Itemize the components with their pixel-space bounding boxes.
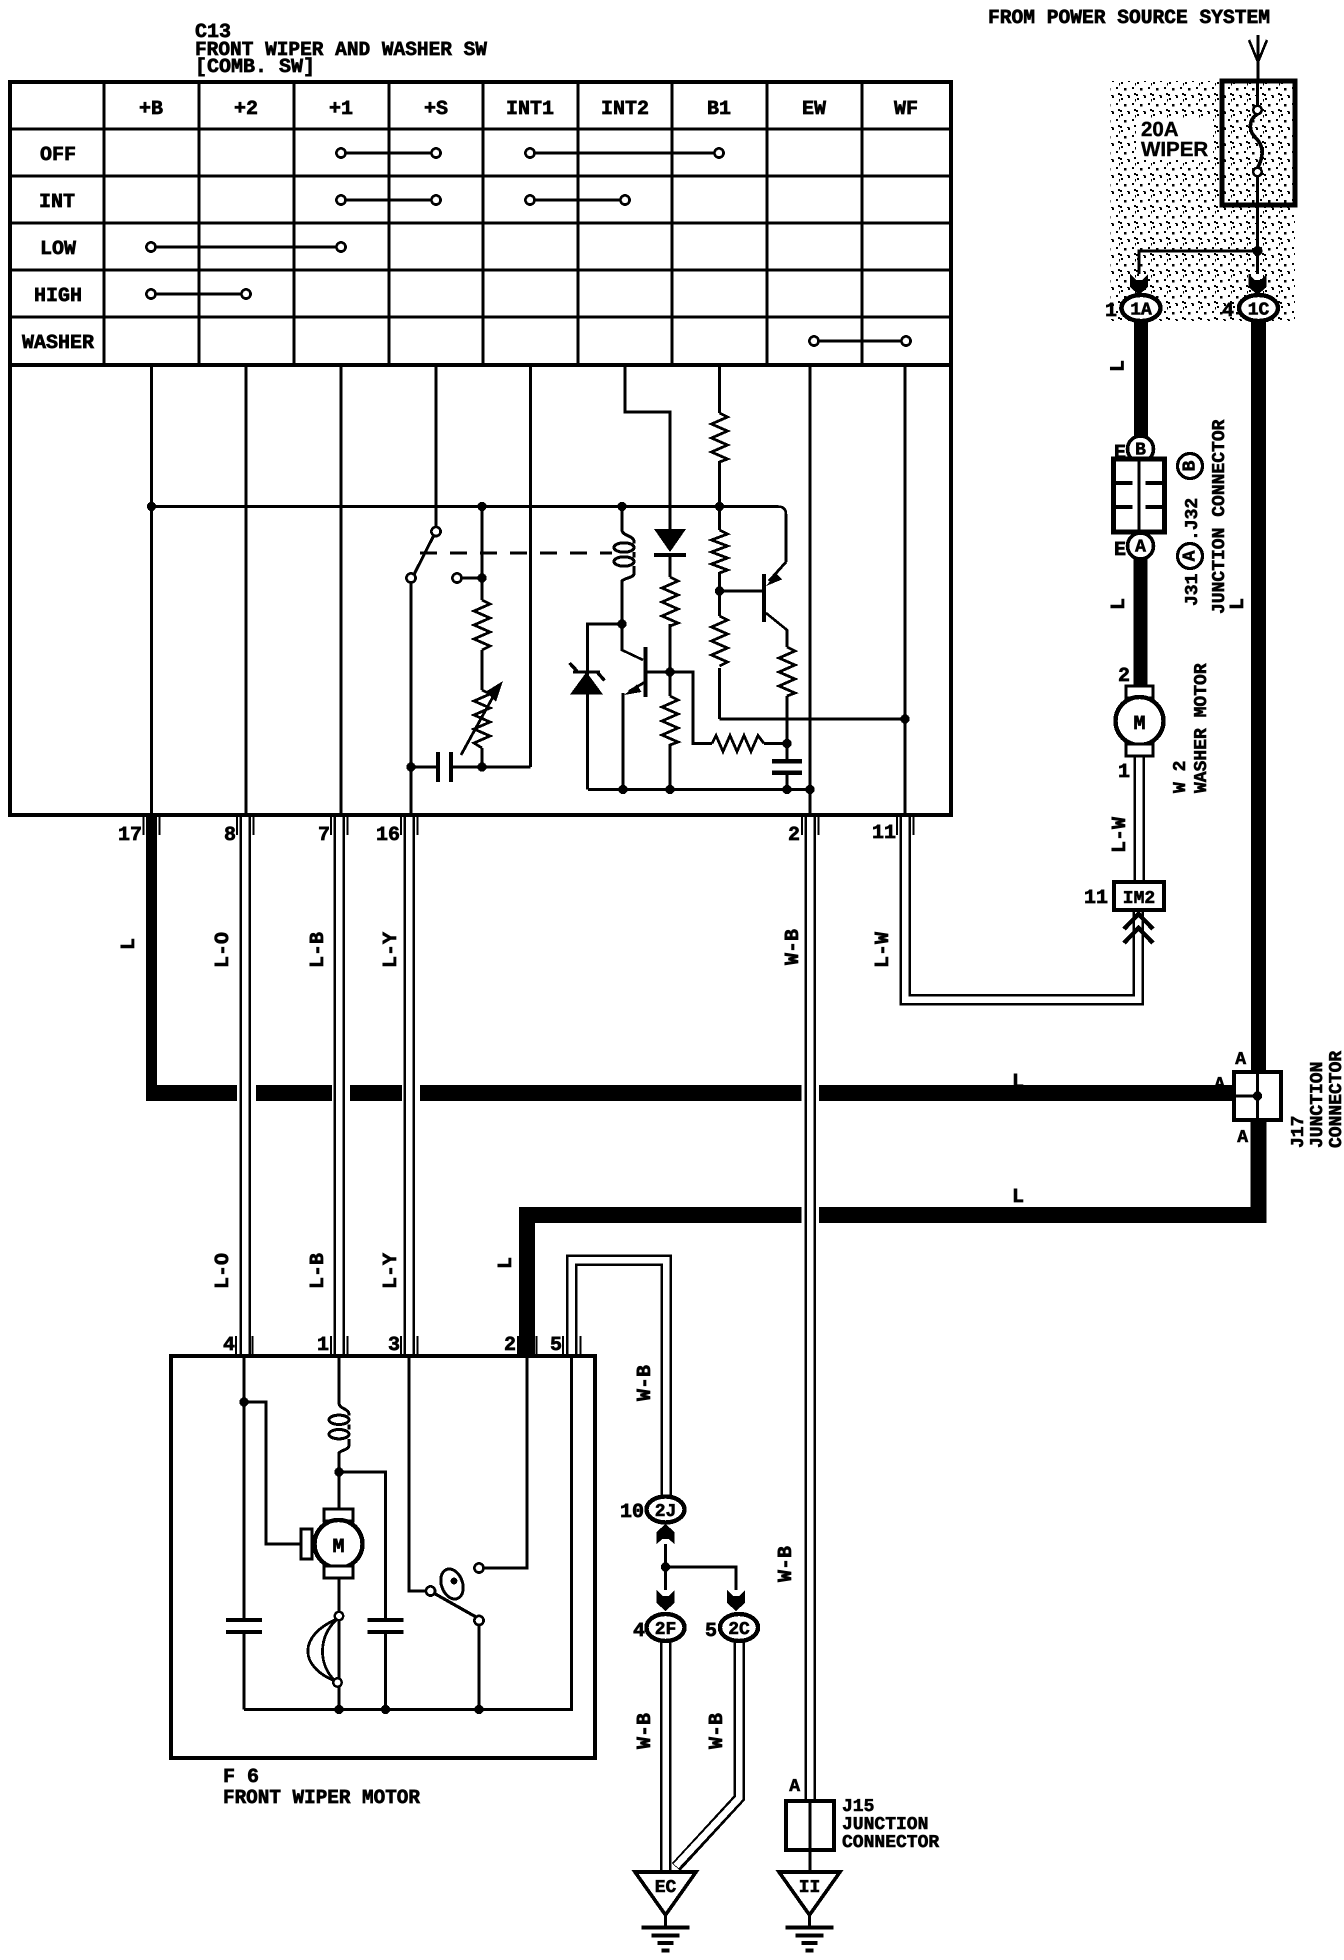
svg-text:EW: EW bbox=[802, 98, 826, 121]
junction connector J31 J32 box bbox=[1114, 459, 1165, 532]
connector pin stubs above motor bbox=[236, 1336, 581, 1356]
pin A labels of J17 bbox=[1214, 1050, 1248, 1148]
node below fuse bbox=[1253, 246, 1263, 256]
svg-text:L-Y: L-Y bbox=[380, 1253, 403, 1289]
svg-text:4: 4 bbox=[223, 1334, 235, 1357]
svg-text:FRONT WIPER MOTOR: FRONT WIPER MOTOR bbox=[223, 1787, 420, 1810]
node B timing bbox=[782, 739, 791, 748]
wire diode branch bbox=[669, 557, 672, 790]
switch contact OFF row +1 to +S bbox=[336, 148, 440, 157]
svg-text:A: A bbox=[1135, 538, 1146, 558]
svg-text:2C: 2C bbox=[728, 1620, 750, 1640]
svg-text:16: 16 bbox=[376, 824, 400, 847]
svg-text:A: A bbox=[1181, 550, 1201, 561]
node ground rail C2 bbox=[782, 785, 791, 794]
svg-text:WIPER: WIPER bbox=[1141, 138, 1208, 161]
node rail at resistor branch bbox=[477, 502, 486, 511]
wire fuse to connectors 1A 1C bbox=[1139, 247, 1258, 274]
connector EB bbox=[1128, 436, 1154, 462]
svg-text:7: 7 bbox=[318, 824, 330, 847]
node ground rail EW bbox=[805, 785, 814, 794]
node switch second contact bbox=[477, 573, 486, 582]
wire node to capacitor row bbox=[481, 507, 484, 768]
svg-text:+S: +S bbox=[424, 98, 448, 121]
ground EC bbox=[635, 1872, 696, 1915]
svg-text:+1: +1 bbox=[329, 98, 353, 121]
switch C13 table frame bbox=[10, 82, 951, 365]
wire +S column to switch contact bbox=[435, 365, 438, 527]
svg-text:F 6: F 6 bbox=[223, 1766, 259, 1789]
wire L-B pin7 to motor pin1 bbox=[334, 815, 346, 1356]
capacitor C4 bbox=[368, 1620, 404, 1632]
svg-text:1: 1 bbox=[317, 1334, 329, 1357]
node motor pin4 branch bbox=[239, 1397, 248, 1406]
svg-text:L: L bbox=[1227, 598, 1250, 610]
wire switch pivot to pin 16 bbox=[410, 583, 413, 816]
svg-text:8: 8 bbox=[224, 824, 236, 847]
connector EA bbox=[1128, 533, 1154, 559]
motor pin numbers bbox=[223, 1334, 562, 1357]
svg-text:10: 10 bbox=[620, 1501, 644, 1524]
wire capacitor C4 branch bbox=[339, 1472, 386, 1710]
wire base node to Q2 bbox=[720, 590, 763, 593]
svg-text:B: B bbox=[1181, 460, 1201, 471]
arrow into 1C bbox=[1249, 274, 1267, 295]
label F6 FRONT WIPER MOTOR bbox=[223, 1766, 420, 1810]
connector 2F bbox=[647, 1614, 685, 1641]
stipple shading around WIPER fuse bbox=[1110, 81, 1295, 321]
node capacitor C1 right bbox=[477, 762, 486, 771]
relay coil K1 bbox=[622, 507, 634, 625]
node rail at +B bbox=[147, 502, 156, 511]
arrow into 2C bbox=[727, 1590, 745, 1611]
svg-text:W-B: W-B bbox=[634, 1713, 657, 1749]
svg-text:2J: 2J bbox=[655, 1502, 677, 1522]
junction connector J17 bbox=[1234, 1072, 1281, 1120]
svg-text:A: A bbox=[1235, 1050, 1246, 1070]
wire L-O pin8 to motor pin4 bbox=[240, 815, 252, 1356]
capacitor C3 bbox=[226, 1620, 262, 1632]
transistor Q2 bbox=[762, 574, 766, 622]
svg-text:LOW: LOW bbox=[40, 238, 76, 261]
wire L (thick) J17 down and left to motor pin2 bbox=[527, 1120, 1259, 1356]
svg-text:1C: 1C bbox=[1248, 301, 1270, 321]
node rail at relay coil bbox=[617, 502, 626, 511]
wire L (thick) EA to washer motor bbox=[1134, 558, 1148, 687]
svg-text:OFF: OFF bbox=[40, 144, 76, 167]
svg-text:L: L bbox=[1012, 1186, 1024, 1209]
wire +2 column to pin 8 bbox=[245, 365, 248, 815]
connector 2J bbox=[647, 1497, 685, 1523]
node rail at B1 resistor bbox=[715, 502, 724, 511]
connector 2C bbox=[720, 1614, 758, 1641]
svg-text:M: M bbox=[332, 1536, 344, 1559]
resistor R6 horizontal bbox=[712, 736, 764, 752]
arrow into 1A bbox=[1130, 274, 1148, 295]
svg-text:A: A bbox=[789, 1777, 800, 1797]
svg-text:A: A bbox=[1214, 1075, 1225, 1095]
svg-text:JUNCTION: JUNCTION bbox=[1308, 1062, 1328, 1148]
cam follower ellipse bbox=[437, 1566, 467, 1602]
svg-text:CONNECTOR: CONNECTOR bbox=[1327, 1051, 1344, 1148]
svg-text:2: 2 bbox=[788, 824, 800, 847]
fuse box 20A WIPER bbox=[1222, 81, 1295, 205]
svg-text:EC: EC bbox=[655, 1878, 677, 1898]
label W2 WASHER MOTOR (rotated) bbox=[1171, 663, 1212, 793]
svg-text:E: E bbox=[1114, 539, 1126, 562]
connector pin stubs below switch bbox=[144, 815, 914, 835]
svg-text:1A: 1A bbox=[1130, 301, 1152, 321]
node coil zener base bbox=[617, 619, 626, 628]
connector 1C bbox=[1239, 295, 1278, 321]
resistor R5a below diode bbox=[662, 577, 678, 626]
svg-text:B1: B1 bbox=[707, 98, 731, 121]
resistor R5b below node A bbox=[662, 696, 678, 745]
svg-text:2: 2 bbox=[504, 1334, 516, 1357]
svg-text:1: 1 bbox=[1105, 300, 1117, 323]
diode D1 bbox=[654, 529, 686, 552]
label J31 J32 junction connector (rotated) bbox=[1183, 419, 1230, 614]
switch contact HIGH row +B to +2 bbox=[146, 289, 250, 298]
svg-text:L-O: L-O bbox=[212, 932, 235, 968]
transistor Q1 bbox=[644, 647, 648, 697]
svg-text:CONNECTOR: CONNECTOR bbox=[842, 1833, 939, 1853]
svg-text:L: L bbox=[1108, 598, 1131, 610]
wire pin1 to coil bbox=[338, 1356, 341, 1509]
switch contact OFF row INT1 to B1 bbox=[525, 148, 723, 157]
wire Q2 collector chain bbox=[766, 613, 787, 744]
svg-text:L-W: L-W bbox=[1109, 817, 1132, 853]
chevron arrows below IM2 bbox=[1124, 914, 1153, 943]
node motor bus armature bbox=[334, 1705, 343, 1714]
svg-text:J15: J15 bbox=[842, 1797, 874, 1817]
svg-text:4: 4 bbox=[633, 1620, 645, 1643]
fuse element bbox=[1250, 81, 1262, 247]
svg-text:M: M bbox=[1133, 713, 1145, 736]
node capacitor C1 left bbox=[406, 762, 415, 771]
wire capacitor row bbox=[411, 766, 531, 769]
front wiper motor F6 box bbox=[171, 1356, 595, 1758]
svg-text:INT1: INT1 bbox=[506, 98, 554, 121]
capacitor C1 bbox=[438, 752, 451, 782]
svg-text:L: L bbox=[1108, 360, 1131, 372]
svg-text:INT2: INT2 bbox=[601, 98, 649, 121]
header text C13 FRONT WIPER AND WASHER SW bbox=[195, 21, 487, 79]
svg-text:4: 4 bbox=[1222, 300, 1234, 323]
wire armature to ground bus bbox=[338, 1579, 341, 1710]
wire B1 column to resistor bbox=[718, 365, 721, 413]
wire W-B motor pin5 to 2J bbox=[572, 1260, 667, 1497]
node motor bus park switch bbox=[474, 1705, 483, 1714]
arrow from power source bbox=[1249, 35, 1267, 81]
park switch arm bbox=[435, 1594, 477, 1618]
svg-text:5: 5 bbox=[550, 1334, 562, 1357]
node Q2 base bbox=[715, 586, 724, 595]
svg-text:1: 1 bbox=[1118, 761, 1130, 784]
wire L-W pin11 to IM2 bbox=[905, 815, 1138, 1000]
label box 20A WIPER bbox=[1136, 119, 1213, 160]
switch SW1 arm and contacts bbox=[406, 527, 482, 583]
svg-text:W-B: W-B bbox=[706, 1713, 729, 1749]
svg-text:W-B: W-B bbox=[782, 929, 805, 965]
supply rail inside switch bbox=[152, 507, 787, 563]
svg-text:+B: +B bbox=[139, 98, 163, 121]
svg-text:L: L bbox=[495, 1257, 518, 1269]
resistor R3 from B1 bbox=[712, 413, 728, 462]
svg-text:WASHER MOTOR: WASHER MOTOR bbox=[1192, 663, 1212, 793]
svg-text:11: 11 bbox=[1084, 887, 1108, 910]
capacitor C2 bbox=[772, 761, 802, 773]
wire W-B 2F to ground EC bbox=[660, 1641, 672, 1872]
wire W-B 2C to ground EC bbox=[676, 1641, 739, 1867]
svg-text:L: L bbox=[118, 938, 141, 950]
switch contact INT row INT1 to INT2 bbox=[525, 195, 629, 204]
svg-text:JUNCTION CONNECTOR: JUNCTION CONNECTOR bbox=[1210, 419, 1230, 614]
variable resistor R2 bbox=[474, 690, 490, 748]
switch contact INT row +1 to +S bbox=[336, 195, 440, 204]
svg-text:HIGH: HIGH bbox=[34, 285, 82, 308]
svg-text:A: A bbox=[1237, 1128, 1248, 1148]
table column headers bbox=[139, 98, 918, 121]
wire INT1 column down to timing node bbox=[529, 365, 532, 767]
wire zener branch bbox=[588, 624, 623, 790]
svg-text:W-B: W-B bbox=[775, 1546, 798, 1582]
svg-text:3: 3 bbox=[388, 1334, 400, 1357]
wire park contact up to pin2 bbox=[484, 1356, 528, 1568]
zener diode ZD1 bbox=[570, 672, 603, 695]
wire +1 column to pin 7 bbox=[340, 365, 343, 815]
resistor R1 bbox=[474, 600, 490, 650]
wire L (thick) 1A connector to junction connector EB bbox=[1134, 318, 1148, 437]
wire EW column to pin 2 bbox=[809, 365, 812, 815]
switch contact LOW row +B to +1 bbox=[146, 242, 345, 251]
svg-text:WASHER: WASHER bbox=[22, 332, 94, 355]
wire W-B pin2 to J15 bbox=[805, 815, 817, 1801]
svg-text:L: L bbox=[1012, 1071, 1024, 1094]
resistor R4 bbox=[712, 530, 728, 573]
resistor R5c bbox=[712, 616, 728, 666]
wire park contact down to bus bbox=[478, 1625, 481, 1710]
svg-text:L-B: L-B bbox=[307, 932, 330, 968]
node motor armature top bbox=[334, 1467, 343, 1476]
wire capacitor C3 to bus bbox=[243, 1634, 246, 1710]
svg-text:J31: J31 bbox=[1183, 573, 1203, 606]
table row labels bbox=[22, 144, 94, 355]
wire colour labels (rotated) bbox=[118, 360, 1250, 1749]
svg-text:5: 5 bbox=[705, 1620, 717, 1643]
wire pin4 branch bbox=[244, 1356, 301, 1618]
pin numbers of comb switch bbox=[118, 822, 896, 847]
svg-text:2F: 2F bbox=[655, 1620, 677, 1640]
wire L (thick) 1C connector down to J17 bbox=[1251, 318, 1266, 1072]
arrow up into 2J bbox=[657, 1524, 675, 1544]
cam plate crescent bbox=[308, 1619, 337, 1681]
svg-text:L-W: L-W bbox=[872, 932, 895, 968]
svg-text:JUNCTION: JUNCTION bbox=[842, 1815, 928, 1835]
wire INT2 column jog to diode branch bbox=[625, 365, 670, 529]
motor M armature bbox=[324, 1509, 353, 1521]
wire washer sense row to WF bbox=[720, 718, 906, 721]
connector 1A bbox=[1122, 295, 1161, 321]
svg-text:11: 11 bbox=[872, 822, 896, 845]
wire +B column to pin 17 bbox=[150, 365, 153, 815]
svg-text:17: 17 bbox=[118, 824, 142, 847]
wire L-Y pin16 to motor pin3 bbox=[404, 815, 416, 1356]
svg-text:INT: INT bbox=[39, 191, 75, 214]
inductor L1 of motor bbox=[339, 1403, 349, 1453]
node ground rail R5b bbox=[665, 785, 674, 794]
ground rail inside switch bbox=[588, 788, 810, 791]
resistor R7 bbox=[779, 647, 795, 696]
svg-text:[COMB. SW]: [COMB. SW] bbox=[195, 56, 315, 79]
svg-text:W 2: W 2 bbox=[1171, 761, 1191, 793]
node A collector bbox=[665, 667, 674, 676]
node ground rail Q1 emitter bbox=[618, 785, 627, 794]
svg-text:.J32: .J32 bbox=[1183, 498, 1203, 541]
svg-text:L-B: L-B bbox=[307, 1253, 330, 1289]
wire L (thick) comb pin17 down bbox=[146, 815, 157, 1101]
dashed link switch to relay coil bbox=[420, 552, 612, 555]
wire pin3 to park switch pivot bbox=[409, 1356, 426, 1591]
svg-text:L-O: L-O bbox=[212, 1253, 235, 1289]
svg-text:IM2: IM2 bbox=[1123, 889, 1155, 909]
node WF washer sense bbox=[900, 714, 909, 723]
wire Q1 collector row to R6 bbox=[648, 672, 788, 744]
svg-text:FROM POWER SOURCE SYSTEM: FROM POWER SOURCE SYSTEM bbox=[988, 7, 1270, 30]
wire L-W washer motor to IM2 bbox=[1134, 756, 1146, 882]
svg-text:II: II bbox=[799, 1878, 821, 1898]
svg-text:J17: J17 bbox=[1289, 1116, 1309, 1148]
node motor bus C4 bbox=[381, 1705, 390, 1714]
wire 2J to branch node bbox=[666, 1544, 737, 1590]
svg-text:+2: +2 bbox=[234, 98, 258, 121]
wire WF column to pin 11 bbox=[904, 365, 907, 815]
svg-text:W-B: W-B bbox=[634, 1365, 657, 1401]
switch contact WASHER row EW to WF bbox=[809, 336, 910, 345]
comb switch internal box bbox=[10, 365, 951, 815]
wire Q1 emitter to ground rail bbox=[622, 693, 625, 790]
wire L (thick) horizontal to J17 bbox=[146, 1085, 1234, 1101]
svg-text:WF: WF bbox=[894, 98, 918, 121]
ground bus of motor bbox=[244, 1356, 572, 1710]
wire Q1 base link bbox=[622, 624, 643, 660]
wire B1 resistor chain bbox=[718, 461, 721, 719]
arrow into 2F bbox=[657, 1590, 675, 1611]
label J17 junction connector (rotated) bbox=[1289, 1051, 1344, 1148]
wire cores (double-line effect) bbox=[242, 815, 249, 1356]
ground II bbox=[779, 1872, 840, 1915]
svg-text:L-Y: L-Y bbox=[380, 932, 403, 968]
